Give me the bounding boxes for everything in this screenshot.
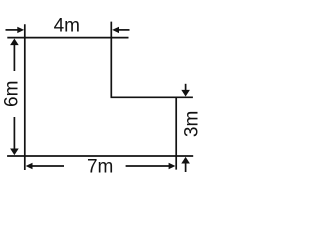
right edge of L-shape (3m side) xyxy=(175,97,177,170)
6m bottom arrowhead pointing down xyxy=(10,149,19,156)
3m top arrowhead pointing down xyxy=(181,90,190,97)
4m right arrowhead pointing left xyxy=(112,27,119,33)
svg-text:7m: 7m xyxy=(87,156,113,177)
4m dimension right arrow shaft xyxy=(119,29,130,31)
bottom edge of L-shape (7m side) xyxy=(7,155,193,157)
3m dimension top arrow shaft xyxy=(185,84,187,91)
3m bottom arrowhead pointing up xyxy=(181,157,190,164)
3m dimension bottom arrow shaft xyxy=(185,163,187,172)
svg-text:3m: 3m xyxy=(182,111,203,137)
svg-text:4m: 4m xyxy=(54,15,80,36)
6m dimension top arrow shaft xyxy=(13,45,15,72)
7m dimension left arrow shaft xyxy=(32,165,64,167)
top edge of L-shape (4m side) xyxy=(7,37,128,39)
svg-text:6m: 6m xyxy=(1,81,22,107)
7m left arrowhead pointing left xyxy=(26,163,33,169)
4m left arrowhead pointing right xyxy=(17,27,24,33)
step vertical edge of L-shape xyxy=(110,22,112,98)
left edge of L-shape (6m side) xyxy=(24,24,26,170)
7m dimension right arrow shaft xyxy=(126,165,169,167)
4m dimension left arrow shaft xyxy=(6,29,19,31)
6m dimension bottom arrow shaft xyxy=(13,117,15,149)
7m right arrowhead pointing right xyxy=(169,163,176,169)
inner horizontal edge of L-shape xyxy=(111,96,193,98)
6m top arrowhead pointing up xyxy=(10,39,19,46)
